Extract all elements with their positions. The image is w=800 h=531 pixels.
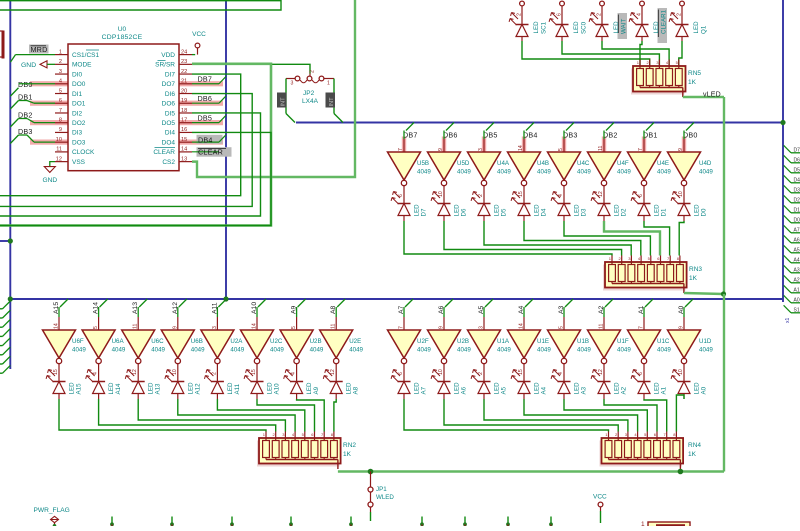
svg-text:15: 15 <box>518 191 524 197</box>
svg-text:D5: D5 <box>794 167 800 173</box>
svg-text:A2: A2 <box>621 386 628 394</box>
svg-text:LED: LED <box>534 204 541 217</box>
svg-text:U2B: U2B <box>457 338 469 345</box>
svg-text:14: 14 <box>54 323 60 329</box>
svg-text:4049: 4049 <box>497 347 511 354</box>
svg-text:D0: D0 <box>794 217 800 223</box>
svg-text:Q1: Q1 <box>701 25 708 34</box>
svg-text:LED: LED <box>614 204 621 217</box>
svg-text:A11: A11 <box>234 383 241 394</box>
svg-text:INT: INT <box>329 97 335 107</box>
svg-text:DI4: DI4 <box>165 130 176 137</box>
svg-text:x1: x1 <box>785 318 791 324</box>
svg-text:D0: D0 <box>701 208 708 216</box>
svg-text:LED: LED <box>653 21 660 34</box>
svg-text:LED: LED <box>148 382 155 395</box>
svg-text:9: 9 <box>59 127 62 133</box>
svg-text:D3: D3 <box>581 208 588 216</box>
svg-text:D4: D4 <box>541 208 548 216</box>
svg-text:LED: LED <box>414 204 421 217</box>
svg-text:VCC: VCC <box>593 494 607 501</box>
svg-text:LED: LED <box>533 21 540 34</box>
svg-text:7: 7 <box>639 326 645 329</box>
svg-text:10: 10 <box>438 191 444 197</box>
svg-text:DO0: DO0 <box>72 81 86 88</box>
svg-text:1K: 1K <box>688 79 697 86</box>
svg-text:LED: LED <box>346 382 353 395</box>
svg-text:10: 10 <box>172 369 178 375</box>
svg-text:DB0: DB0 <box>18 80 33 89</box>
svg-text:D7: D7 <box>794 147 800 153</box>
svg-text:7: 7 <box>398 148 404 151</box>
svg-text:2: 2 <box>597 13 603 16</box>
svg-text:RN5: RN5 <box>688 70 701 77</box>
svg-text:D1: D1 <box>794 207 800 213</box>
svg-text:10: 10 <box>56 137 62 143</box>
svg-text:A6: A6 <box>794 237 800 243</box>
svg-text:CS2: CS2 <box>162 159 175 166</box>
svg-text:GND: GND <box>43 177 58 184</box>
svg-text:U4C: U4C <box>577 160 590 167</box>
svg-text:DI7: DI7 <box>165 71 176 78</box>
svg-text:5: 5 <box>93 326 99 329</box>
svg-text:5: 5 <box>558 148 564 151</box>
svg-text:15: 15 <box>251 369 257 375</box>
svg-text:1: 1 <box>327 81 330 87</box>
svg-text:U2B: U2B <box>310 338 322 345</box>
svg-text:D5: D5 <box>501 208 508 216</box>
svg-text:LED: LED <box>574 204 581 217</box>
svg-text:DB6: DB6 <box>443 131 458 140</box>
svg-text:11: 11 <box>56 147 62 153</box>
svg-text:S1: S1 <box>794 307 800 313</box>
svg-text:1K: 1K <box>343 451 352 458</box>
svg-text:VDD: VDD <box>161 52 175 59</box>
svg-text:6: 6 <box>59 98 62 104</box>
svg-text:VCC: VCC <box>192 31 206 38</box>
svg-text:5: 5 <box>291 326 297 329</box>
svg-text:14: 14 <box>181 147 187 153</box>
svg-text:U4A: U4A <box>497 160 510 167</box>
svg-text:LED: LED <box>693 21 700 34</box>
svg-text:22: 22 <box>181 69 187 75</box>
svg-text:D1: D1 <box>661 208 668 216</box>
svg-text:3: 3 <box>59 69 62 75</box>
svg-text:DB7: DB7 <box>403 131 418 140</box>
svg-text:A14: A14 <box>115 383 122 395</box>
svg-text:12: 12 <box>598 191 604 197</box>
svg-text:U2E: U2E <box>349 338 361 345</box>
svg-text:U2A: U2A <box>230 338 243 345</box>
svg-text:DB6: DB6 <box>198 94 213 103</box>
svg-text:A1: A1 <box>661 386 668 394</box>
svg-text:19: 19 <box>181 98 187 104</box>
svg-text:U2F: U2F <box>417 338 429 345</box>
svg-text:U5D: U5D <box>457 160 470 167</box>
svg-text:18: 18 <box>181 108 187 114</box>
svg-text:LED: LED <box>227 382 234 395</box>
svg-text:CLEAR1: CLEAR1 <box>661 9 668 34</box>
svg-text:U0: U0 <box>118 26 127 33</box>
svg-text:1K: 1K <box>689 275 698 282</box>
svg-text:U1A: U1A <box>497 338 510 345</box>
svg-text:3: 3 <box>478 148 484 151</box>
svg-text:A3: A3 <box>794 267 800 273</box>
svg-text:11: 11 <box>133 324 139 329</box>
svg-text:14: 14 <box>519 323 525 329</box>
svg-text:DI2: DI2 <box>72 110 83 117</box>
svg-text:LED: LED <box>69 382 76 395</box>
svg-text:9: 9 <box>438 148 444 151</box>
svg-text:LED: LED <box>654 204 661 217</box>
svg-text:A4: A4 <box>541 386 548 394</box>
svg-text:1: 1 <box>641 521 645 526</box>
svg-text:4049: 4049 <box>270 347 284 354</box>
svg-text:7: 7 <box>399 326 405 329</box>
svg-text:U6F: U6F <box>72 338 84 345</box>
svg-text:1K: 1K <box>688 451 697 458</box>
svg-text:2: 2 <box>517 13 523 16</box>
svg-text:CS1/CS1: CS1/CS1 <box>72 52 99 59</box>
svg-text:4: 4 <box>59 79 62 85</box>
svg-text:11: 11 <box>598 146 604 151</box>
svg-text:U4E: U4E <box>657 160 669 167</box>
svg-text:U1D: U1D <box>699 338 712 345</box>
svg-text:LED: LED <box>108 382 115 395</box>
svg-text:WLED: WLED <box>376 494 394 501</box>
svg-text:A3: A3 <box>581 386 588 394</box>
svg-text:4049: 4049 <box>230 347 244 354</box>
svg-text:3: 3 <box>291 81 294 87</box>
svg-text:PWR_FLAG: PWR_FLAG <box>34 507 70 514</box>
svg-text:14: 14 <box>252 323 258 329</box>
svg-text:4049: 4049 <box>699 347 713 354</box>
svg-text:DO2: DO2 <box>72 120 86 127</box>
svg-text:U6A: U6A <box>112 338 125 345</box>
svg-text:WAIT: WAIT <box>621 19 628 34</box>
svg-text:DB5: DB5 <box>483 131 498 140</box>
svg-text:DB1: DB1 <box>643 131 658 140</box>
svg-text:MODE: MODE <box>72 62 92 69</box>
svg-text:LED: LED <box>494 204 501 217</box>
svg-text:A0: A0 <box>794 297 800 303</box>
svg-text:2: 2 <box>310 70 316 73</box>
svg-text:A1: A1 <box>794 287 800 293</box>
svg-text:DB0: DB0 <box>683 131 698 140</box>
svg-text:U1C: U1C <box>657 338 670 345</box>
svg-text:10: 10 <box>678 191 684 197</box>
svg-text:11: 11 <box>599 324 605 329</box>
svg-text:CLOCK: CLOCK <box>72 149 95 156</box>
svg-text:LED: LED <box>414 382 421 395</box>
svg-text:4049: 4049 <box>537 169 551 176</box>
svg-text:4049: 4049 <box>151 347 165 354</box>
svg-text:DB7: DB7 <box>198 75 213 84</box>
svg-text:DO3: DO3 <box>72 139 86 146</box>
svg-text:7: 7 <box>59 108 62 114</box>
svg-text:D2: D2 <box>794 197 800 203</box>
svg-text:A9: A9 <box>313 386 320 394</box>
svg-text:4049: 4049 <box>617 347 631 354</box>
svg-text:A2: A2 <box>794 277 800 283</box>
svg-text:DB4: DB4 <box>198 135 213 144</box>
svg-text:23: 23 <box>181 59 187 65</box>
svg-text:U4B: U4B <box>537 160 549 167</box>
svg-text:VSS: VSS <box>72 159 86 166</box>
svg-text:DO7: DO7 <box>162 81 176 88</box>
svg-text:A7: A7 <box>794 227 800 233</box>
svg-text:U6B: U6B <box>191 338 203 345</box>
svg-text:9: 9 <box>679 326 685 329</box>
svg-text:4049: 4049 <box>112 347 126 354</box>
svg-text:9: 9 <box>678 148 684 151</box>
svg-text:4: 4 <box>637 13 643 16</box>
svg-text:LED: LED <box>654 382 661 395</box>
svg-text:D6: D6 <box>461 208 468 216</box>
svg-text:DI6: DI6 <box>165 91 176 98</box>
svg-text:LED: LED <box>187 382 194 395</box>
svg-text:4049: 4049 <box>72 347 86 354</box>
svg-text:DO1: DO1 <box>72 101 86 108</box>
svg-text:13: 13 <box>181 156 187 162</box>
svg-text:LED: LED <box>694 382 701 395</box>
svg-text:LED: LED <box>613 21 620 34</box>
svg-text:SR/SR: SR/SR <box>155 62 175 69</box>
svg-text:4049: 4049 <box>577 347 591 354</box>
svg-text:LED: LED <box>454 204 461 217</box>
svg-text:DO5: DO5 <box>162 120 176 127</box>
svg-text:U1B: U1B <box>577 338 589 345</box>
svg-text:DB3: DB3 <box>563 131 578 140</box>
svg-text:A4: A4 <box>794 257 800 263</box>
svg-text:DI3: DI3 <box>72 130 83 137</box>
svg-text:4049: 4049 <box>349 347 363 354</box>
svg-text:LED: LED <box>694 204 701 217</box>
svg-text:DI0: DI0 <box>72 71 83 78</box>
svg-text:LED: LED <box>306 382 313 395</box>
svg-text:12: 12 <box>330 369 336 375</box>
svg-text:LED: LED <box>574 382 581 395</box>
svg-text:A5: A5 <box>794 247 800 253</box>
svg-text:U4D: U4D <box>699 160 712 167</box>
svg-text:vLED: vLED <box>703 92 721 99</box>
svg-text:LED: LED <box>494 382 501 395</box>
svg-text:RN3: RN3 <box>689 266 702 273</box>
svg-text:U6C: U6C <box>151 338 164 345</box>
svg-text:A8: A8 <box>353 386 360 394</box>
svg-text:LED: LED <box>534 382 541 395</box>
svg-text:4049: 4049 <box>537 347 551 354</box>
svg-text:RN4: RN4 <box>688 442 701 449</box>
svg-text:14: 14 <box>518 145 524 151</box>
svg-text:4049: 4049 <box>657 347 671 354</box>
svg-text:DB4: DB4 <box>523 131 538 140</box>
svg-text:U4F: U4F <box>617 160 629 167</box>
svg-text:DB2: DB2 <box>603 131 618 140</box>
svg-text:5: 5 <box>559 326 565 329</box>
svg-text:20: 20 <box>181 88 187 94</box>
svg-text:4049: 4049 <box>577 169 591 176</box>
svg-text:LED: LED <box>454 382 461 395</box>
svg-text:D7: D7 <box>421 208 428 216</box>
svg-text:CLEAR: CLEAR <box>153 149 175 156</box>
svg-text:D2: D2 <box>621 208 628 216</box>
svg-text:4049: 4049 <box>417 169 431 176</box>
svg-text:4049: 4049 <box>417 347 431 354</box>
svg-text:4049: 4049 <box>699 169 713 176</box>
svg-text:A7: A7 <box>421 386 428 394</box>
svg-text:A12: A12 <box>194 383 201 395</box>
svg-text:12: 12 <box>132 369 138 375</box>
svg-text:U5B: U5B <box>417 160 429 167</box>
svg-text:JP1: JP1 <box>376 486 387 493</box>
svg-text:JP2: JP2 <box>303 90 315 97</box>
svg-text:U1F: U1F <box>617 338 629 345</box>
svg-text:16: 16 <box>181 127 187 133</box>
svg-text:A0: A0 <box>701 386 708 394</box>
svg-text:21: 21 <box>181 79 187 85</box>
svg-text:4049: 4049 <box>310 347 324 354</box>
svg-text:D4: D4 <box>794 177 800 183</box>
svg-text:U1E: U1E <box>537 338 549 345</box>
svg-text:SC0: SC0 <box>581 21 588 34</box>
svg-text:DI5: DI5 <box>165 110 176 117</box>
svg-text:2: 2 <box>59 59 62 65</box>
svg-text:SC1: SC1 <box>541 21 548 34</box>
svg-text:GND: GND <box>21 62 36 69</box>
svg-text:12: 12 <box>598 369 604 375</box>
svg-text:LED: LED <box>267 382 274 395</box>
svg-text:A15: A15 <box>76 383 83 395</box>
svg-text:A13: A13 <box>155 383 162 395</box>
svg-text:8: 8 <box>59 118 62 124</box>
svg-text:CDP1852CE: CDP1852CE <box>102 34 143 41</box>
svg-text:9: 9 <box>439 326 445 329</box>
svg-text:24: 24 <box>181 49 187 55</box>
svg-text:LED: LED <box>614 382 621 395</box>
svg-text:A10: A10 <box>274 383 281 395</box>
svg-text:11: 11 <box>331 324 337 329</box>
svg-text:DI1: DI1 <box>72 91 83 98</box>
svg-text:DO4: DO4 <box>162 139 176 146</box>
svg-text:U2C: U2C <box>270 338 283 345</box>
svg-text:10: 10 <box>678 369 684 375</box>
svg-text:17: 17 <box>181 118 187 124</box>
svg-text:5: 5 <box>59 88 62 94</box>
svg-text:4049: 4049 <box>457 169 471 176</box>
svg-text:15: 15 <box>518 369 524 375</box>
svg-text:A6: A6 <box>461 386 468 394</box>
svg-text:3: 3 <box>479 326 485 329</box>
svg-text:4049: 4049 <box>657 169 671 176</box>
svg-text:INT: INT <box>281 97 287 107</box>
svg-text:RN2: RN2 <box>343 442 356 449</box>
svg-text:9: 9 <box>172 326 178 329</box>
svg-text:3: 3 <box>212 326 218 329</box>
svg-text:D3: D3 <box>794 187 800 193</box>
svg-text:7: 7 <box>638 148 644 151</box>
svg-text:15: 15 <box>181 137 187 143</box>
svg-text:2: 2 <box>677 13 683 16</box>
svg-text:LX4A: LX4A <box>302 98 319 105</box>
svg-text:12: 12 <box>56 156 62 162</box>
svg-text:A5: A5 <box>501 386 508 394</box>
svg-text:DB5: DB5 <box>198 113 213 122</box>
svg-text:D6: D6 <box>794 157 800 163</box>
svg-text:4049: 4049 <box>191 347 205 354</box>
svg-text:4049: 4049 <box>617 169 631 176</box>
svg-text:1: 1 <box>59 49 62 55</box>
svg-text:6: 6 <box>557 13 563 16</box>
svg-text:10: 10 <box>438 369 444 375</box>
svg-text:4049: 4049 <box>497 169 511 176</box>
svg-text:15: 15 <box>53 369 59 375</box>
svg-text:LED: LED <box>573 21 580 34</box>
svg-text:DO6: DO6 <box>162 101 176 108</box>
svg-text:4049: 4049 <box>457 347 471 354</box>
